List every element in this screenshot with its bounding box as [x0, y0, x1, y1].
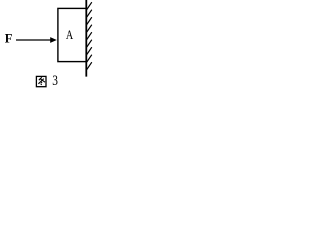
svg-text:3: 3 [52, 72, 58, 89]
svg-text:A: A [66, 29, 74, 42]
svg-text:F: F [5, 32, 13, 46]
